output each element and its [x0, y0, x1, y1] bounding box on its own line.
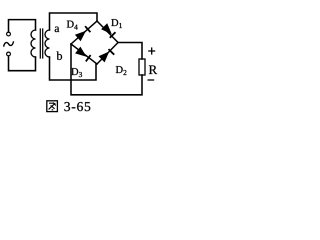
diode D2 triangle	[99, 52, 110, 63]
label D1	[111, 19, 122, 28]
wire: AC source top	[9, 20, 36, 32]
label D2	[116, 66, 127, 75]
wire: terminal a to bridge top node	[50, 13, 98, 30]
label +	[148, 47, 155, 54]
diode D1 triangle	[101, 23, 112, 34]
transformer core line 1	[39, 29, 41, 58]
wire: AC source bottom	[9, 56, 36, 71]
diode D4 cathode bar	[85, 26, 90, 32]
resistor R box	[139, 59, 145, 75]
transformer primary winding	[31, 30, 36, 57]
caption: figure glyph (CJK tu)	[47, 101, 58, 112]
label a	[55, 27, 60, 33]
diode D4 triangle	[75, 31, 86, 42]
transformer core line 2	[42, 29, 44, 58]
label D4	[67, 21, 78, 30]
label R	[149, 65, 157, 74]
terminal circle top	[7, 32, 11, 36]
diode D1 cathode bar	[110, 32, 116, 38]
wire: terminal b down and right then up to bridge bottom node	[50, 57, 97, 80]
label D3	[71, 68, 82, 77]
diode D2 cathode bar	[109, 49, 115, 55]
terminal circle bottom	[7, 52, 11, 56]
diode D3 arm wire (left node to bottom node)	[71, 44, 97, 64]
label minus	[148, 79, 155, 81]
AC tilde	[4, 42, 14, 46]
label b	[57, 51, 63, 59]
wire: bridge right node to load top	[118, 43, 142, 60]
label caption 3-65	[64, 102, 90, 111]
diode D2 arm wire (bottom node to right node)	[97, 43, 118, 65]
transformer secondary winding	[45, 30, 50, 57]
diode D4 arm wire (left node to top node)	[71, 21, 97, 44]
diode D1 arm wire (top node to right node)	[97, 21, 118, 43]
wire: bridge left node down (crossover) and bottom rail to load	[71, 44, 142, 95]
diode D3 triangle	[75, 47, 86, 57]
diode D3 cathode bar	[86, 55, 91, 61]
